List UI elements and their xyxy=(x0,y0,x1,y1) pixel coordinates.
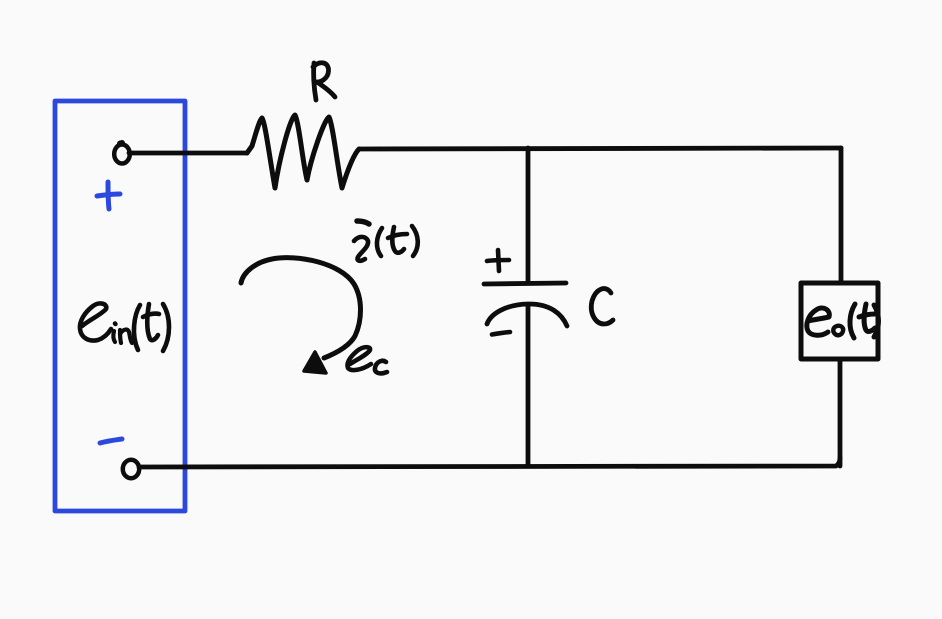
label C xyxy=(591,289,613,324)
label i(t) xyxy=(354,221,418,261)
top terminal (open circle) xyxy=(114,143,130,164)
source box (blue rectangle) xyxy=(55,101,185,511)
arrowhead of current loop xyxy=(304,352,326,373)
wire: capacitor bottom stub xyxy=(526,306,531,466)
wire: top-right corner down to output box xyxy=(839,148,844,282)
minus polarity mark at capacitor xyxy=(492,332,510,335)
wire: capacitor top stub xyxy=(526,148,531,282)
wire: output box bottom down to bottom rail xyxy=(838,359,843,466)
plus polarity mark (blue) at source xyxy=(97,182,120,209)
plus polarity mark at capacitor xyxy=(487,250,509,271)
resistor R (zigzag) xyxy=(247,115,359,188)
label R xyxy=(313,63,335,100)
loop arrow for current i(t) xyxy=(241,258,361,358)
capacitor C bottom plate (curved) xyxy=(487,304,567,326)
capacitor C top plate xyxy=(484,283,566,284)
wire: resistor to top-right corner xyxy=(360,148,841,149)
bottom terminal (open circle) xyxy=(123,460,139,478)
wire: top terminal to resistor xyxy=(129,151,247,156)
label e_c xyxy=(347,347,387,373)
wire: bottom rail xyxy=(139,458,840,467)
label e_in(t) xyxy=(80,303,169,351)
minus polarity mark (blue) at source xyxy=(100,439,122,443)
output box xyxy=(801,283,878,359)
label e_o(t) xyxy=(807,304,879,338)
